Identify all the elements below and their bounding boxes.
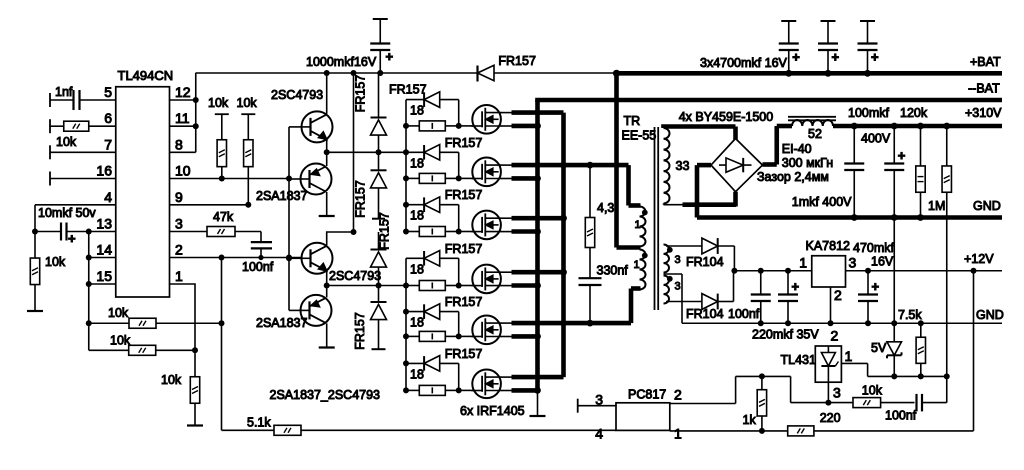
svg-text:2: 2 (674, 387, 682, 403)
svg-text:FR157: FR157 (378, 212, 392, 250)
svg-text:2: 2 (831, 328, 839, 344)
svg-text:120k: 120k (900, 106, 928, 120)
svg-text:47k: 47k (213, 210, 234, 224)
svg-text:10k: 10k (110, 334, 131, 348)
svg-text:16V: 16V (871, 255, 894, 269)
svg-text:FR157: FR157 (445, 347, 483, 361)
svg-text:470mkf: 470mkf (853, 241, 895, 255)
svg-text:3: 3 (849, 255, 857, 271)
svg-text:4,3: 4,3 (597, 201, 614, 215)
svg-text:330nf: 330nf (597, 264, 629, 278)
svg-text:GND: GND (973, 199, 1001, 213)
svg-text:2: 2 (834, 287, 842, 303)
svg-text:1: 1 (845, 348, 853, 364)
svg-text:10k: 10k (56, 135, 77, 149)
svg-text:1: 1 (674, 426, 682, 442)
svg-text:+: + (872, 279, 880, 294)
svg-text:FR104: FR104 (686, 255, 724, 269)
svg-text:+: + (792, 50, 800, 65)
svg-text:400V: 400V (861, 132, 891, 146)
svg-text:4: 4 (595, 426, 603, 442)
svg-text:16: 16 (96, 163, 112, 179)
svg-text:FR157: FR157 (445, 136, 483, 150)
svg-text:TR: TR (624, 114, 641, 128)
svg-text:220mkf 35V: 220mkf 35V (752, 328, 819, 342)
svg-text:10: 10 (175, 163, 191, 179)
svg-text:FR157: FR157 (498, 54, 536, 68)
svg-text:10k: 10k (45, 255, 66, 269)
svg-text:+: + (898, 148, 906, 163)
svg-text:6x IRF1405: 6x IRF1405 (460, 404, 525, 418)
svg-text:14: 14 (96, 242, 112, 258)
svg-text:100nf: 100nf (728, 307, 760, 321)
svg-text:1: 1 (175, 268, 183, 284)
svg-text:18: 18 (410, 367, 424, 381)
svg-text:10k: 10k (237, 96, 258, 110)
svg-text:15: 15 (96, 268, 112, 284)
svg-text:FR157: FR157 (354, 180, 368, 218)
svg-text:+: + (386, 49, 394, 64)
svg-text:FR157: FR157 (354, 75, 368, 113)
svg-text:+: + (871, 50, 879, 65)
svg-text:3x4700mkf 16V: 3x4700mkf 16V (700, 56, 788, 70)
svg-text:1: 1 (635, 219, 641, 231)
svg-text:FR157: FR157 (445, 188, 483, 202)
svg-text:11: 11 (175, 110, 190, 126)
svg-text:18: 18 (410, 262, 424, 276)
svg-text:10k: 10k (208, 96, 229, 110)
svg-text:10k: 10k (161, 373, 182, 387)
svg-text:2: 2 (175, 242, 183, 258)
svg-text:1k: 1k (743, 413, 757, 427)
svg-text:10mkf 50v: 10mkf 50v (38, 206, 96, 220)
svg-text:PC817: PC817 (628, 388, 666, 402)
svg-text:EE-55: EE-55 (622, 129, 657, 143)
svg-text:EI-40: EI-40 (782, 142, 812, 156)
svg-text:+: + (68, 231, 76, 246)
svg-text:Зазор 2,4мм: Зазор 2,4мм (757, 170, 829, 184)
svg-text:FR157: FR157 (445, 242, 483, 256)
svg-text:2SC4793: 2SC4793 (271, 88, 323, 102)
svg-text:300 мкГн: 300 мкГн (782, 156, 833, 170)
svg-text:FR157: FR157 (445, 295, 483, 309)
svg-text:18: 18 (410, 316, 424, 330)
svg-text:2SC4793: 2SC4793 (329, 269, 381, 283)
svg-text:3: 3 (595, 392, 603, 408)
svg-text:--BAT: --BAT (968, 82, 1000, 96)
svg-text:7.5k: 7.5k (898, 308, 922, 322)
svg-text:10k: 10k (862, 384, 883, 398)
svg-text:1: 1 (634, 259, 640, 271)
svg-text:4x BY459E-1500: 4x BY459E-1500 (679, 110, 774, 124)
svg-text:KA7812: KA7812 (806, 239, 851, 253)
svg-text:5.1k: 5.1k (247, 416, 271, 430)
svg-text:13: 13 (96, 216, 112, 232)
svg-text:+12V: +12V (964, 252, 994, 266)
svg-text:220: 220 (820, 411, 841, 425)
svg-text:100nf: 100nf (885, 409, 917, 423)
svg-text:3: 3 (175, 216, 183, 232)
svg-text:TL431: TL431 (781, 353, 816, 367)
svg-text:1M: 1M (928, 199, 945, 213)
svg-text:3: 3 (675, 281, 681, 293)
svg-text:2SA1837: 2SA1837 (256, 316, 307, 330)
svg-text:2SA1837: 2SA1837 (256, 189, 307, 203)
svg-text:+: + (792, 279, 800, 294)
svg-text:1nf: 1nf (55, 85, 73, 99)
svg-text:5V: 5V (871, 341, 887, 355)
svg-text:100mkf: 100mkf (848, 106, 890, 120)
svg-text:33: 33 (676, 159, 690, 173)
svg-text:18: 18 (410, 104, 424, 118)
svg-text:18: 18 (410, 156, 424, 170)
svg-text:GND: GND (976, 308, 1004, 322)
svg-text:18: 18 (410, 209, 424, 223)
svg-text:12: 12 (175, 84, 191, 100)
svg-text:6: 6 (104, 110, 112, 126)
svg-text:+310V: +310V (965, 106, 1002, 120)
svg-text:1mkf 400V: 1mkf 400V (792, 195, 852, 209)
svg-text:3: 3 (833, 385, 841, 401)
svg-text:1000mkf16V: 1000mkf16V (306, 55, 377, 69)
svg-text:FR157: FR157 (353, 312, 367, 350)
svg-text:2SA1837_2SC4793: 2SA1837_2SC4793 (270, 388, 381, 402)
svg-text:+: + (832, 50, 840, 65)
svg-text:4: 4 (104, 189, 112, 205)
svg-text:8: 8 (175, 136, 183, 152)
svg-text:100nf: 100nf (242, 260, 274, 274)
svg-text:+BAT: +BAT (970, 55, 1001, 69)
svg-text:7: 7 (104, 136, 112, 152)
svg-text:TL494CN: TL494CN (118, 68, 174, 83)
svg-text:10k: 10k (108, 306, 129, 320)
svg-text:5: 5 (104, 84, 112, 100)
svg-text:3: 3 (675, 254, 681, 266)
svg-text:FR157: FR157 (389, 83, 427, 97)
svg-text:9: 9 (175, 189, 183, 205)
svg-text:FR104: FR104 (686, 307, 724, 321)
svg-text:1: 1 (799, 255, 807, 271)
svg-text:52: 52 (808, 127, 822, 141)
